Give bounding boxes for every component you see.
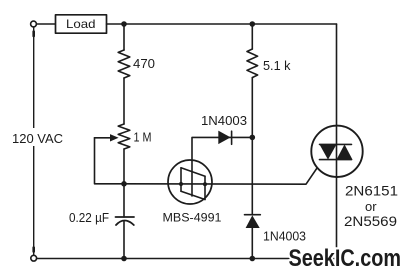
svg-text:MBS-4991: MBS-4991 xyxy=(163,211,222,225)
node SBS right bar on wire xyxy=(203,182,207,186)
wire top rail down to 5.1k xyxy=(251,24,253,49)
svg-text:2N6151: 2N6151 xyxy=(345,182,398,198)
wire right side vertical through triac xyxy=(336,24,338,259)
watermark SeekIC.com xyxy=(289,245,402,272)
node junction capacitor/bottom rail xyxy=(121,256,127,262)
wire D1 anode branch from SBS top xyxy=(192,137,252,160)
SBS U1 MBS-4991 circle xyxy=(168,160,212,204)
svg-text:1N4003: 1N4003 xyxy=(263,229,306,244)
Load box xyxy=(56,15,107,33)
label 120 VAC background xyxy=(8,128,68,146)
wire 5.1k to diode junction xyxy=(251,78,253,138)
svg-text:0.22 µF: 0.22 µF xyxy=(69,211,109,225)
capacitor 0.22 uF xyxy=(116,217,135,225)
wire gate line junction to triac xyxy=(124,160,323,184)
potentiometer 1M resistor body xyxy=(118,124,130,149)
triac Q1 top bar xyxy=(320,143,352,145)
SBS U1 symbol bars and diagonals xyxy=(181,161,205,200)
label 1N4003 top xyxy=(201,113,247,128)
node SBS left bar on wire xyxy=(179,182,183,186)
wire tick mark below top terminal xyxy=(32,32,35,37)
resistor 5.1k xyxy=(247,49,258,78)
svg-text:470: 470 xyxy=(133,56,155,71)
svg-text:SeekIC.com: SeekIC.com xyxy=(289,245,402,272)
node junction top rail / 470 xyxy=(121,21,127,27)
label 0.22 uF xyxy=(69,211,109,225)
potentiometer wiper arrow xyxy=(95,134,119,141)
label 470 xyxy=(133,56,155,71)
triac Q1 circle xyxy=(311,126,362,177)
triac Q1 vertical through circle xyxy=(336,126,338,177)
label 2N6151 xyxy=(345,182,398,198)
node junction 5.1k / D1 / D2 branch xyxy=(250,135,256,141)
node junction pot/cap/gate-line xyxy=(121,181,127,187)
wire top terminal to Load xyxy=(36,23,55,25)
node junction top rail / 5.1k xyxy=(250,21,256,27)
wire wiper down to junction xyxy=(95,138,125,184)
wire capacitor to bottom rail xyxy=(123,221,125,259)
wire pot bottom to capacitor junction xyxy=(123,149,125,184)
wire Load to top-right corner xyxy=(107,23,337,25)
triac Q1 right triangle xyxy=(337,144,353,159)
diode D2 1N4003 (vertical) xyxy=(245,215,261,228)
svg-text:1 M: 1 M xyxy=(134,131,152,145)
svg-text:1N4003: 1N4003 xyxy=(201,113,247,128)
svg-text:Load: Load xyxy=(66,17,96,31)
label or xyxy=(365,199,377,214)
svg-text:2N5569: 2N5569 xyxy=(344,213,397,229)
wire D2 branch down xyxy=(251,137,253,214)
node junction D2 / bottom rail xyxy=(250,256,256,262)
wire top junction down to R1 xyxy=(123,24,125,50)
wire R 470 to potentiometer xyxy=(123,78,125,124)
wire tick mark above bottom terminal xyxy=(32,248,35,252)
label 120 VAC xyxy=(12,131,63,146)
wire D2 to bottom rail xyxy=(251,228,253,259)
svg-text:5.1 k: 5.1 k xyxy=(263,58,291,73)
wire left side vertical (120 VAC lower run) xyxy=(33,27,35,255)
label 5.1 k xyxy=(263,58,291,73)
diode D1 1N4003 (horizontal) xyxy=(218,131,231,145)
label MBS-4991 xyxy=(163,211,222,225)
label 1N4003 bottom xyxy=(263,229,306,244)
svg-text:120 VAC: 120 VAC xyxy=(12,131,63,146)
terminal bottom-left (120 VAC input, lower) xyxy=(31,255,37,261)
label Load xyxy=(66,17,96,31)
terminal top-left (120 VAC input, upper) xyxy=(31,21,37,27)
label 2N5569 xyxy=(344,213,397,229)
svg-text:or: or xyxy=(365,199,377,214)
wire bottom rail xyxy=(37,258,337,260)
triac Q1 bottom bar xyxy=(320,159,352,161)
wire junction down to capacitor xyxy=(123,184,125,217)
resistor 470 xyxy=(118,50,130,78)
label 1 M xyxy=(134,131,152,145)
triac Q1 left triangle xyxy=(320,144,337,159)
